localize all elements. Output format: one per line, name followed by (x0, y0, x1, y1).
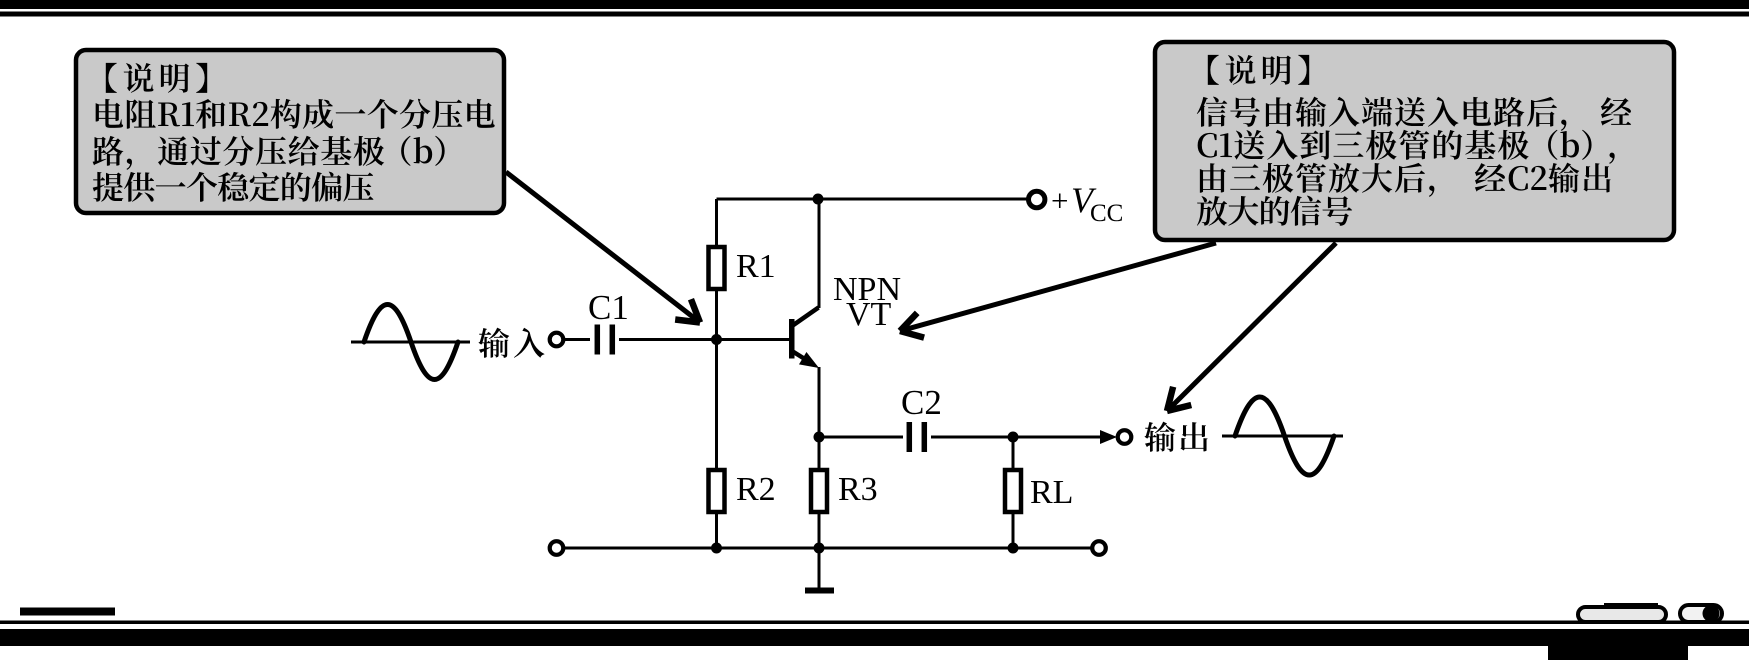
svg-text:R2: R2 (736, 471, 776, 508)
svg-text:+: + (1051, 183, 1068, 218)
svg-text:RL: RL (1030, 474, 1073, 511)
svg-text:R1: R1 (736, 248, 776, 285)
svg-text:VT: VT (846, 296, 892, 333)
svg-text:CC: CC (1090, 200, 1123, 227)
svg-text:C2: C2 (901, 383, 942, 422)
svg-text:C1: C1 (588, 288, 629, 327)
svg-text:R3: R3 (838, 471, 878, 508)
